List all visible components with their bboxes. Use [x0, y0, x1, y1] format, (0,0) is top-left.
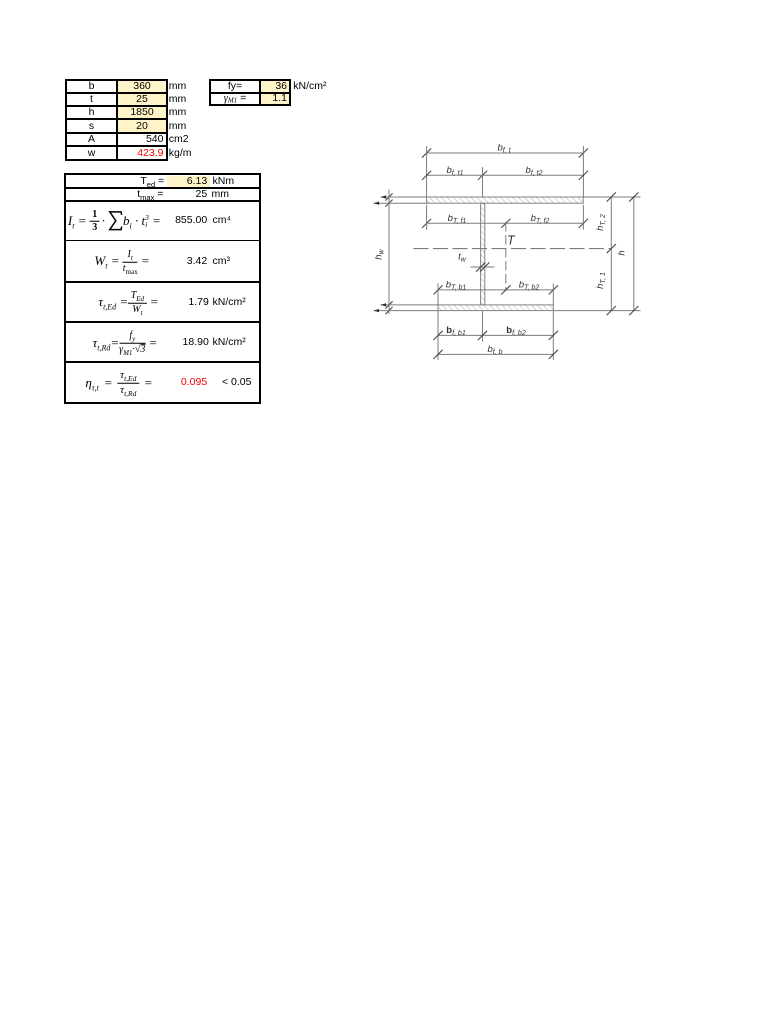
tick h_T top [607, 193, 615, 201]
tick b_T,b mid [502, 286, 510, 294]
dimension h_w line [388, 190, 390, 314]
dimension b_f,b1 / b_f,b2 line [438, 334, 553, 336]
svg-text:h: h [617, 250, 628, 255]
T1 row t [67, 93, 116, 106]
dimension b_T,f1 / b_T,f2 line [427, 222, 584, 224]
arrow bottom flange bottom left [374, 309, 380, 312]
tick b_f,b right [549, 331, 557, 339]
svg-text:tw: tw [458, 252, 467, 264]
dimension b_T,b1 / b_T,b2 line [438, 289, 553, 291]
svg-text:bf, b2: bf, b2 [506, 325, 526, 337]
tick h_w top2 [386, 200, 392, 206]
tick b_f,b left [434, 331, 442, 339]
tick t_w right [481, 263, 489, 271]
T3 row1 Ted [104, 175, 164, 188]
tick b_T,f mid [502, 219, 510, 227]
T3 row2 tmax [103, 188, 163, 201]
tick h top [630, 193, 638, 201]
tick b_f,t right [579, 149, 587, 157]
extension bottom flange bottom left [374, 310, 438, 312]
svg-text:hT, 2: hT, 2 [595, 214, 607, 231]
arrow bottom flange top left [381, 303, 387, 306]
dimension h line [633, 197, 635, 311]
extension web top [482, 168, 484, 198]
extension left above bottom flange [437, 284, 439, 305]
tick b_T,b left [434, 286, 442, 294]
dimension b_f,t1 / b_f,t2 line [427, 174, 584, 176]
horizontal dashed axis [414, 248, 611, 250]
vertical dashed axis [505, 223, 507, 290]
extension flange bottom left [374, 202, 427, 204]
T1 row A [67, 133, 116, 146]
extension top right [583, 196, 640, 198]
table T3 frame [64, 173, 261, 404]
T3 row4 Wt formula [94, 249, 149, 274]
extension left below flange [426, 205, 428, 229]
svg-text:hT, 1: hT, 1 [595, 272, 607, 289]
top flange [427, 197, 584, 203]
tick b_T,b right [549, 286, 557, 294]
svg-text:T: T [507, 234, 516, 248]
tick b_f,t1 left [422, 171, 430, 179]
svg-text:bf, t1: bf, t1 [447, 165, 464, 177]
T1 row b [67, 80, 116, 93]
svg-text:bf, t2: bf, t2 [526, 165, 543, 177]
extension line left top [426, 147, 428, 197]
svg-text:bT, f2: bT, f2 [531, 213, 550, 225]
tick b_T,f left [422, 219, 430, 227]
tick h_w top1 [386, 194, 392, 200]
T2 row gamma M1 [211, 92, 259, 105]
tick b_f,t left [422, 149, 430, 157]
T2 row fy [211, 80, 259, 93]
extension line right top [582, 147, 584, 197]
extension bottom right [553, 310, 640, 312]
table T2 yellow cells [260, 80, 290, 105]
dimension b_f,t line [427, 152, 584, 154]
extension right above bottom flange [552, 284, 554, 305]
extension flange top left [381, 196, 427, 198]
tick h bottom [630, 306, 638, 314]
svg-text:bf, b: bf, b [487, 344, 502, 356]
T3 row7 eta formula [85, 369, 152, 396]
T1 row s [67, 120, 116, 133]
svg-text:bT, f1: bT, f1 [448, 213, 467, 225]
tick h_w bot2 [386, 307, 392, 313]
extension bottom flange top left [381, 304, 438, 306]
svg-text:hw: hw [374, 248, 386, 259]
extension web below bottom flange [482, 312, 484, 341]
T1 row h [67, 106, 116, 119]
bottom flange [438, 305, 553, 311]
tick b_f,b left end [434, 350, 442, 358]
tick b_f,b right end [549, 350, 557, 358]
extension right below flange [582, 205, 584, 229]
dimension h_T line [610, 197, 612, 311]
extension right below bottom flange [552, 312, 554, 360]
dimension t_w line [471, 266, 494, 268]
T3 row3 It formula [68, 208, 161, 233]
tick b_f,b mid [478, 331, 486, 339]
svg-text:bT, b2: bT, b2 [519, 279, 540, 291]
T1 row w [67, 147, 116, 160]
tick t_w left [477, 263, 485, 271]
tick b_f,t2 right [579, 171, 587, 179]
tick h_T mid [607, 244, 615, 252]
dimension b_f,b line [438, 353, 553, 355]
table T1 grid lines [65, 79, 168, 81]
T3 row5 tau Ed formula [98, 290, 158, 315]
tick b_T,f right [579, 219, 587, 227]
tick b_f,t mid [478, 171, 486, 179]
T3 row6 tau Rd formula [93, 330, 158, 355]
table T3 yellow cell [167, 176, 210, 187]
arrow flange top left [381, 195, 387, 198]
table T2 grid lines [209, 79, 291, 81]
tick h_T bottom [607, 306, 615, 314]
web [481, 203, 485, 305]
tick h_w bot1 [386, 302, 392, 308]
svg-text:bf, t: bf, t [497, 143, 511, 155]
table T1 yellow cells [118, 80, 166, 133]
svg-text:bf, b1: bf, b1 [446, 325, 466, 337]
arrow flange bottom left [374, 202, 380, 205]
extension left below bottom flange [437, 312, 439, 360]
svg-text:bT, b1: bT, b1 [446, 279, 467, 291]
